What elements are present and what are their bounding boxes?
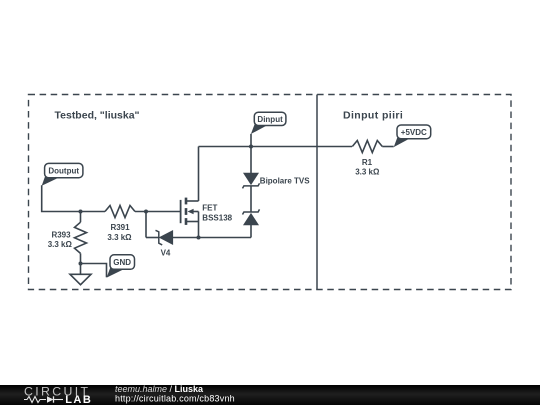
svg-text:Doutput: Doutput bbox=[48, 167, 79, 176]
svg-text:Dinput: Dinput bbox=[257, 115, 283, 124]
wire to ground symbol bbox=[80, 264, 82, 275]
node junction at R393 bottom bbox=[79, 262, 83, 266]
svg-text:LAB: LAB bbox=[65, 394, 92, 405]
wire R391 to gate bbox=[135, 211, 180, 213]
wire bottom left segment bbox=[146, 237, 159, 239]
footer credit text bbox=[115, 384, 235, 404]
node junction source bbox=[197, 236, 201, 240]
svg-text:http://circuitlab.com/cb83vnh: http://circuitlab.com/cb83vnh bbox=[115, 394, 235, 404]
wire V4 to source node bbox=[173, 237, 251, 239]
svg-text:BSS138: BSS138 bbox=[202, 214, 232, 223]
svg-text:3.3 kΩ: 3.3 kΩ bbox=[107, 233, 132, 242]
svg-text:Testbed, "liuska": Testbed, "liuska" bbox=[55, 110, 140, 122]
svg-text:V4: V4 bbox=[161, 249, 171, 258]
svg-text:Dinput piiri: Dinput piiri bbox=[343, 110, 403, 122]
node junction gate branch bbox=[144, 210, 148, 214]
node junction Dinput/TVS bbox=[249, 145, 253, 149]
ground bbox=[70, 274, 91, 284]
svg-text:Bipolare TVS: Bipolare TVS bbox=[260, 177, 310, 186]
svg-text:R391: R391 bbox=[110, 223, 130, 232]
svg-text:GND: GND bbox=[113, 258, 131, 267]
svg-text:3.3 kΩ: 3.3 kΩ bbox=[48, 240, 73, 249]
svg-text:R1: R1 bbox=[362, 158, 373, 167]
resistor R393 bbox=[48, 212, 87, 264]
box divider between Testbed and Dinput piiri bbox=[316, 95, 318, 290]
flag Doutput bbox=[42, 163, 83, 185]
flag Dinput bbox=[251, 112, 286, 134]
svg-text:3.3 kΩ: 3.3 kΩ bbox=[355, 168, 380, 177]
logo CircuitLab bbox=[24, 384, 92, 405]
wire drain up bbox=[198, 147, 200, 202]
wire Dinput flag stem bbox=[250, 134, 252, 147]
wire top rail bbox=[199, 146, 353, 148]
wire to GND flag bbox=[81, 264, 107, 278]
resistor R391 bbox=[105, 206, 135, 242]
svg-text:+5VDC: +5VDC bbox=[401, 128, 427, 137]
flag +5VDC bbox=[394, 125, 431, 147]
node junction at R393 top bbox=[79, 210, 83, 214]
svg-text:FET: FET bbox=[202, 204, 217, 213]
wire gate branch down bbox=[145, 212, 147, 238]
svg-text:teemu.halme / Liuska: teemu.halme / Liuska bbox=[115, 384, 204, 394]
diode V4 (zener, pointing left) bbox=[156, 230, 173, 257]
resistor R1 bbox=[352, 141, 393, 177]
flag GND bbox=[107, 255, 135, 278]
box Testbed (dashed enclosure) bbox=[29, 95, 512, 290]
svg-text:R393: R393 bbox=[51, 230, 71, 239]
wire Doutput to gate node bbox=[42, 185, 105, 211]
transistor Q1 FET BSS138 bbox=[181, 198, 233, 238]
diode D1 Bipolare TVS (two zeners anti-series) bbox=[243, 147, 311, 238]
